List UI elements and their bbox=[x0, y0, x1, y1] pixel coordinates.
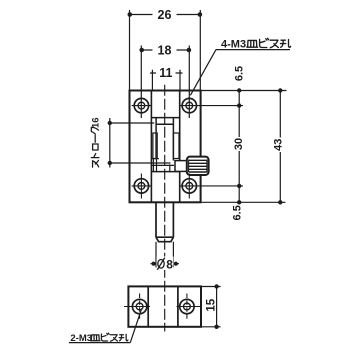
svg-text:2-M3: 2-M3 bbox=[70, 333, 92, 344]
svg-text:18: 18 bbox=[158, 43, 172, 57]
svg-text:16: 16 bbox=[90, 117, 101, 128]
svg-text:8: 8 bbox=[166, 257, 173, 271]
svg-text:6.5: 6.5 bbox=[231, 205, 243, 220]
svg-text:11: 11 bbox=[159, 66, 172, 80]
svg-text:26: 26 bbox=[158, 8, 172, 22]
svg-text:30: 30 bbox=[233, 138, 245, 150]
svg-text:4-M3: 4-M3 bbox=[221, 39, 246, 51]
svg-text:15: 15 bbox=[206, 298, 218, 311]
svg-text:43: 43 bbox=[272, 139, 284, 151]
svg-text:6.5: 6.5 bbox=[234, 66, 246, 81]
